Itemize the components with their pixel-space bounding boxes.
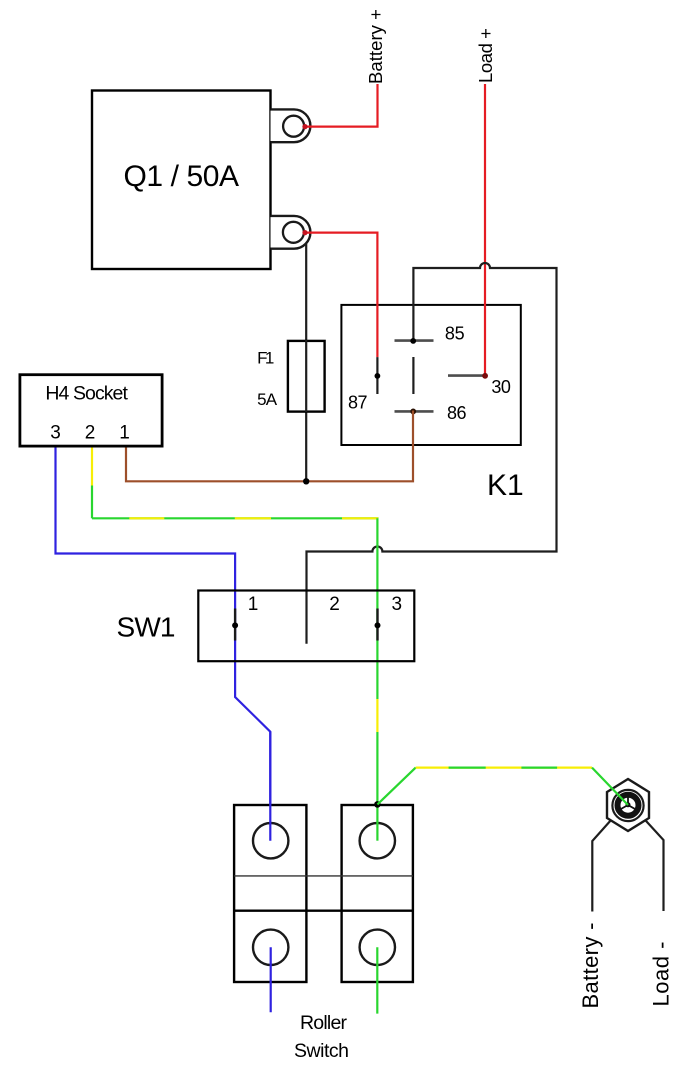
roller switch right body	[342, 805, 413, 982]
wire yellow-green dashed horizontal lower	[416, 766, 592, 768]
wire yellow H4 pin2 upper	[91, 446, 93, 486]
SW1 pin 1 symbol	[234, 609, 236, 641]
wire black inside fuse	[305, 340, 307, 412]
svg-text:Load +: Load +	[475, 28, 496, 83]
junction dot black-brown	[303, 478, 309, 484]
bolt spokes	[618, 794, 638, 811]
roller hole top-right	[360, 823, 395, 858]
bolt inner ring	[618, 795, 639, 816]
roller switch left body	[234, 805, 306, 982]
wire green into top-right hole	[376, 804, 378, 840]
svg-text:Battery -: Battery -	[578, 923, 603, 1009]
svg-text:85: 85	[445, 323, 465, 343]
svg-text:K1: K1	[487, 469, 524, 502]
relay pin 85 dot	[410, 338, 416, 344]
junction dot green net	[374, 801, 381, 808]
bolt center dot	[626, 802, 631, 807]
relay pin 86 dot	[410, 409, 416, 415]
wire red Q1 lower terminal to relay pin 87	[304, 233, 377, 357]
wire blue H4 pin3 to SW1 pin1 to roller switch	[56, 446, 271, 841]
red endpoint dot upper terminal	[302, 124, 307, 129]
wire green from bottom-right hole	[376, 947, 378, 1013]
svg-text:3: 3	[50, 422, 61, 443]
Q1 terminal upper ring	[283, 116, 304, 137]
svg-text:86: 86	[447, 403, 467, 423]
wire green H4 pin2 lower	[91, 486, 93, 519]
svg-text:Q1 / 50A: Q1 / 50A	[124, 160, 240, 193]
switch SW1 body	[198, 591, 414, 662]
wire black from Q1 lower terminal to fuse and junction	[305, 244, 307, 482]
svg-text:H4 Socket: H4 Socket	[45, 383, 128, 405]
relay actuator line	[412, 357, 414, 394]
svg-text:2: 2	[85, 422, 96, 443]
svg-text:Roller: Roller	[300, 1012, 348, 1034]
svg-text:5A: 5A	[257, 390, 278, 409]
wire blue into top-left hole	[269, 732, 271, 841]
relay pin 30 bar	[448, 374, 485, 377]
svg-text:87: 87	[348, 393, 368, 413]
wire yellow dash on vertical	[376, 699, 378, 732]
svg-text:Switch: Switch	[294, 1040, 349, 1062]
Q1 terminal upper tab	[271, 109, 311, 142]
svg-text:2: 2	[329, 594, 340, 615]
wire brown H4 pin1 to relay pin 86	[126, 411, 413, 482]
svg-text:Load -: Load -	[648, 942, 673, 1007]
relay pin 30 dot	[482, 373, 488, 379]
red endpoint dot lower terminal	[302, 230, 307, 235]
svg-text:1: 1	[119, 422, 130, 443]
bolt outer circle	[612, 790, 643, 821]
H4 socket body	[20, 375, 162, 446]
fuse F1 body	[288, 341, 325, 412]
wire red Battery+ to Q1 upper terminal	[304, 84, 378, 127]
relay pin 85 bar	[395, 339, 434, 342]
svg-text:30: 30	[491, 377, 511, 397]
bolt hexagon	[607, 779, 649, 831]
wire green diagonal into bolt	[592, 768, 628, 805]
svg-text:1: 1	[248, 594, 259, 615]
relay K1 body	[341, 305, 520, 445]
wire blue from bottom-left hole	[270, 947, 272, 1012]
wire black bolt to Load-	[636, 810, 664, 911]
wire black bolt to Battery-	[592, 810, 620, 912]
wire green diagonal to dashed horizontal lower	[377, 768, 415, 805]
Q1 terminal lower ring	[283, 222, 304, 243]
svg-text:Battery +: Battery +	[365, 9, 386, 84]
relay pin 86 bar	[395, 410, 434, 413]
svg-text:F1: F1	[257, 348, 274, 367]
wire green vertical to roller junction	[376, 732, 378, 804]
wire green-yellow dashed horizontal upper	[92, 517, 379, 519]
roller switch thick divider	[234, 910, 413, 912]
wire black relay pin 85 to SW1 pin 2	[307, 263, 557, 644]
roller hole top-left	[253, 823, 288, 858]
wire red Load+ to relay pin 30	[484, 84, 486, 375]
relay pin 87 dot	[375, 373, 381, 379]
svg-text:3: 3	[392, 594, 403, 615]
roller hole bottom-right	[360, 930, 395, 965]
SW1 pin 3 symbol	[376, 609, 378, 641]
Q1 terminal lower tab	[271, 216, 311, 249]
wire green vertical through SW1	[376, 518, 378, 699]
svg-text:SW1: SW1	[117, 612, 176, 643]
circuit breaker Q1 body	[92, 91, 271, 270]
roller switch thin divider	[234, 875, 413, 877]
relay pin 87 line	[376, 357, 378, 394]
roller hole bottom-left	[253, 930, 288, 965]
